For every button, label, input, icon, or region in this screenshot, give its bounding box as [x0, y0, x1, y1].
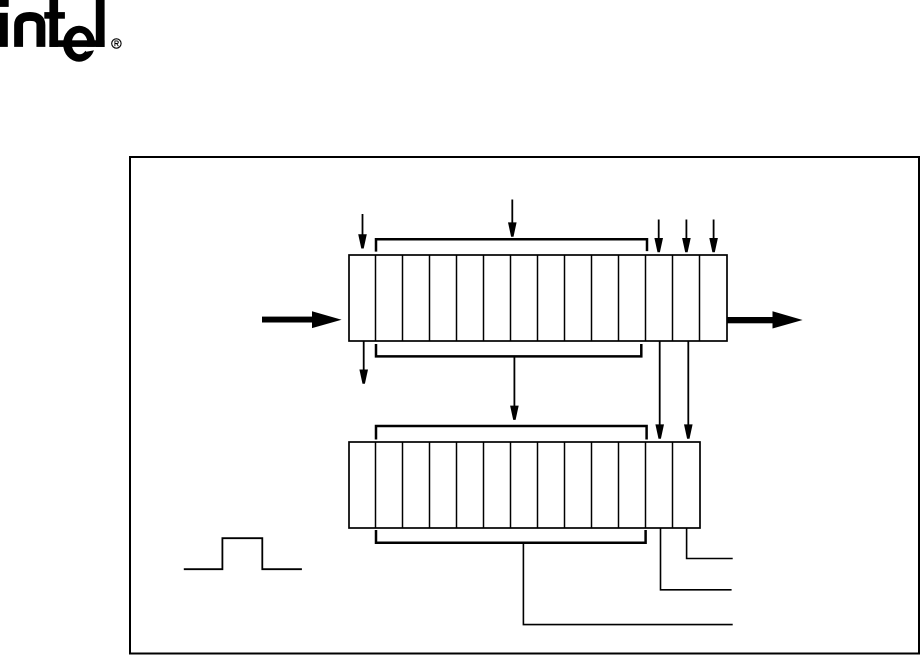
- output line from lower cell 13 (L-shape): [687, 528, 733, 559]
- logo letter l: [96, 0, 105, 47]
- lower register cell dividers: [376, 442, 673, 528]
- upper register bottom bracket: [376, 344, 641, 356]
- logo letter n: [19, 16, 41, 47]
- arrow upper bracket to lower bracket (center): [510, 358, 519, 420]
- intel logo (clipped at top-left): [0, 0, 121, 62]
- lower register box: [349, 442, 700, 528]
- lower register bottom bracket: [376, 530, 646, 543]
- logo letter t crossbar: [44, 12, 65, 19]
- logo t-foot bar through e: [49, 40, 104, 47]
- long arrow upper cell 12 to lower cell 12: [655, 341, 664, 439]
- figure border frame: [130, 157, 919, 654]
- logo letter e aperture: [85, 47, 99, 52]
- top-right arrow 3: [709, 220, 718, 253]
- output line from lower cell 12 (L-shape): [661, 528, 732, 590]
- big input arrow (left): [262, 311, 342, 328]
- logo letter t stem: [49, 0, 58, 47]
- logo letter i stem: [0, 13, 8, 47]
- lower register top bracket: [376, 426, 647, 440]
- arrow into top bracket (center): [508, 200, 517, 237]
- top-right arrow 2: [682, 220, 691, 253]
- long arrow upper cell 13 to lower cell 13: [684, 341, 693, 439]
- big output arrow (right): [727, 311, 803, 328]
- upper register cell dividers: [376, 255, 700, 341]
- top-right arrow 1: [654, 220, 663, 253]
- upper register box: [349, 255, 727, 341]
- output line from lower bottom bracket (L-shape): [523, 543, 732, 625]
- small arrow out of cell 1 (bottom): [359, 341, 368, 384]
- clock pulse waveform: [184, 538, 302, 569]
- upper register top bracket: [376, 239, 647, 251]
- small arrow into cell 1 (top left): [358, 214, 367, 249]
- logo letter e counter: [72, 33, 88, 55]
- logo letter i dot: [0, 0, 9, 7]
- logo letter e outer: [63, 26, 95, 62]
- logo registered mark: [112, 39, 121, 48]
